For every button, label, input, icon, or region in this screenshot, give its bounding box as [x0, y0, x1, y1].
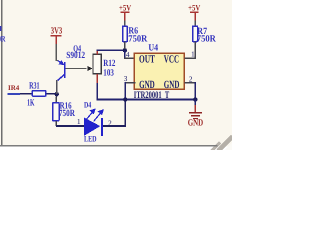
svg-text:GND: GND	[188, 118, 204, 128]
svg-text:2: 2	[189, 74, 193, 83]
svg-text:S9012: S9012	[66, 51, 85, 61]
svg-text:1: 1	[191, 49, 195, 58]
svg-text:3: 3	[124, 74, 128, 83]
svg-text:1K: 1K	[27, 98, 35, 108]
svg-text:+5V: +5V	[119, 3, 132, 13]
svg-text:+5V: +5V	[188, 3, 201, 13]
svg-text:R31: R31	[29, 81, 40, 91]
svg-text:IR4: IR4	[8, 84, 20, 92]
svg-text:U4: U4	[148, 43, 158, 53]
svg-text:GND: GND	[139, 79, 155, 91]
svg-text:OUT: OUT	[139, 54, 155, 66]
svg-text:750R: 750R	[197, 35, 216, 45]
svg-text:1: 1	[77, 117, 81, 126]
svg-text:D4: D4	[84, 99, 92, 109]
svg-text:4: 4	[126, 50, 130, 59]
svg-text:750R: 750R	[128, 35, 147, 45]
svg-text:750R: 750R	[59, 109, 75, 119]
svg-text:GND: GND	[164, 79, 180, 91]
svg-text:LED: LED	[84, 134, 97, 144]
svg-text:103: 103	[103, 68, 114, 78]
svg-text:VCC: VCC	[164, 54, 179, 66]
svg-text:0R: 0R	[0, 33, 6, 43]
